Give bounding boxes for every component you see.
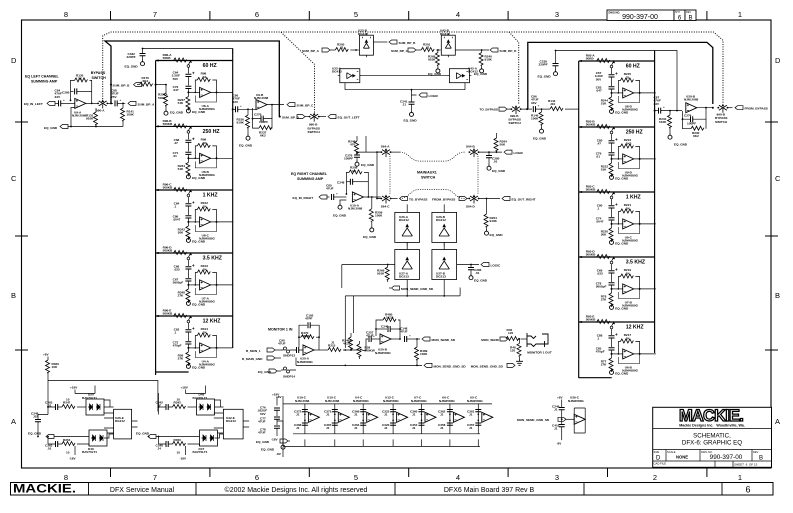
- svg-text:NJM 2068: NJM 2068: [325, 399, 340, 403]
- resistor R209: [371, 196, 373, 198]
- svg-text:3.5 KHZ: 3.5 KHZ: [203, 256, 223, 262]
- earth ground: [516, 358, 523, 365]
- svg-text:R354: R354: [63, 438, 71, 442]
- net SUM_BP_C: [287, 103, 295, 107]
- pot R96-D: [157, 251, 233, 306]
- op-amp U9-A: [75, 98, 86, 108]
- svg-text:J10: J10: [550, 102, 555, 106]
- lower wire: [345, 89, 465, 91]
- wire to S64-A: [357, 136, 381, 155]
- svg-text:J1: J1: [296, 426, 300, 430]
- svg-text:10: 10: [66, 397, 70, 401]
- svg-text:.1: .1: [597, 337, 600, 341]
- svg-text:EQ LEFT CHANNEL: EQ LEFT CHANNEL: [25, 75, 60, 79]
- svg-text:SHEET 6 OF 13: SHEET 6 OF 13: [734, 462, 758, 466]
- svg-text:.01: .01: [493, 160, 498, 164]
- svg-text:D: D: [775, 56, 781, 65]
- svg-text:SUM_BP_C: SUM_BP_C: [297, 104, 315, 108]
- svg-text:SCHEMATIC,: SCHEMATIC,: [693, 433, 731, 440]
- svg-text:J1: J1: [440, 413, 444, 417]
- pot R96-B: [157, 124, 233, 179]
- svg-text:EQ_GND: EQ_GND: [615, 111, 629, 115]
- svg-text:220PF: 220PF: [127, 55, 136, 59]
- resistor R363: [46, 360, 50, 373]
- wire: [55, 102, 58, 104]
- svg-text:4: 4: [456, 10, 460, 19]
- -18V: [74, 446, 76, 455]
- svg-text:EQ_GND: EQ_GND: [474, 279, 488, 283]
- svg-text:.47: .47: [597, 142, 602, 146]
- svg-text:910K: 910K: [237, 121, 245, 125]
- svg-text:J1: J1: [440, 426, 444, 430]
- svg-text:250 HZ: 250 HZ: [626, 130, 644, 136]
- svg-text:J1: J1: [384, 413, 388, 417]
- svg-text:A: A: [775, 417, 780, 426]
- svg-text:+: +: [63, 98, 65, 102]
- pot R93-A: [580, 59, 656, 114]
- svg-text:DFX-6: GRAPHIC EQ: DFX-6: GRAPHIC EQ: [682, 440, 742, 447]
- ground bus wire: [296, 364, 422, 366]
- svg-text:EQ_GND: EQ_GND: [192, 176, 206, 180]
- resistor R141: [122, 103, 124, 108]
- svg-text:1: 1: [738, 473, 742, 482]
- svg-text:5: 5: [354, 10, 358, 19]
- wire top rail to column: [143, 49, 233, 55]
- switch S64-B: [469, 148, 480, 157]
- pot R93-E: [580, 320, 656, 375]
- svg-text:1 KHZ: 1 KHZ: [626, 195, 642, 201]
- svg-text:910K: 910K: [428, 58, 436, 62]
- svg-text:NJM 2068: NJM 2068: [295, 399, 310, 403]
- svg-text:DG412: DG412: [468, 70, 478, 74]
- jack MONITOR 1 OUT: [527, 333, 548, 347]
- svg-text:33V: 33V: [55, 95, 61, 99]
- resistor R246A: [349, 337, 353, 350]
- svg-text:MONITOR 1 IN: MONITOR 1 IN: [268, 328, 293, 332]
- svg-text:100PF: 100PF: [344, 157, 353, 161]
- svg-text:.033: .033: [597, 272, 603, 276]
- svg-text:MONITOR 1 OUT: MONITOR 1 OUT: [527, 351, 552, 355]
- svg-text:SHT: SHT: [675, 11, 680, 14]
- net EQ_OUT_RIGHT: [502, 197, 510, 201]
- svg-text:C274: C274: [684, 114, 692, 118]
- svg-text:S64-A: S64-A: [381, 145, 391, 149]
- op-amp U9-B: [256, 100, 267, 110]
- op-amp U10-A: [352, 192, 363, 202]
- net LOGIC: [412, 90, 417, 95]
- svg-text:EQ_GND: EQ_GND: [125, 64, 139, 68]
- svg-text:4K23: 4K23: [343, 342, 351, 346]
- svg-text:60 HZ: 60 HZ: [626, 64, 641, 70]
- lower mid wire: [293, 433, 480, 435]
- svg-text:3: 3: [555, 473, 559, 482]
- svg-text:B_MAIN_GND: B_MAIN_GND: [242, 357, 263, 361]
- svg-text:NJM4580G: NJM4580G: [375, 351, 391, 355]
- analog switch U22-A left-facing: [338, 69, 362, 83]
- ground: [436, 67, 440, 73]
- svg-text:EQ_GND: EQ_GND: [192, 240, 206, 244]
- svg-text:EQ_IN_LEFT: EQ_IN_LEFT: [24, 102, 43, 106]
- svg-text:7: 7: [153, 473, 157, 482]
- capacitor C274 feedback: [683, 108, 707, 120]
- svg-text:SWITCH: SWITCH: [715, 120, 728, 124]
- svg-text:SWITCH: SWITCH: [308, 130, 321, 134]
- svg-text:EQ_GND: EQ_GND: [404, 119, 418, 123]
- svg-text:DG212: DG212: [399, 218, 409, 222]
- svg-text:7: 7: [153, 10, 157, 19]
- svg-text:BAV70LT1: BAV70LT1: [82, 450, 97, 454]
- buffer U6-C: [438, 396, 464, 447]
- column numbers bottom: [64, 473, 742, 482]
- svg-text:3: 3: [555, 10, 559, 19]
- svg-text:+18V: +18V: [70, 386, 78, 390]
- svg-text:TO_BYPASS: TO_BYPASS: [409, 197, 427, 201]
- net FROM_BYPASS: [735, 106, 743, 110]
- svg-text:SUMMING AMP: SUMMING AMP: [31, 80, 58, 84]
- svg-text:MON_SEND_GND_SD: MON_SEND_GND_SD: [401, 287, 434, 291]
- net LOGIC: [504, 150, 512, 154]
- svg-text:500KB: 500KB: [586, 188, 596, 192]
- svg-text:DG212: DG212: [436, 218, 446, 222]
- op-amp U36-C: [574, 414, 585, 424]
- buffer U10-C: [324, 396, 349, 447]
- svg-text:C248: C248: [337, 181, 345, 185]
- svg-text:1K3: 1K3: [626, 141, 632, 145]
- svg-text:DG213: DG213: [399, 275, 409, 279]
- svg-text:SIZE: SIZE: [654, 450, 660, 454]
- analog switch U26-B: [432, 204, 457, 246]
- svg-text:EQ_GND: EQ_GND: [492, 169, 506, 173]
- svg-text:12 KHZ: 12 KHZ: [626, 325, 645, 331]
- svg-text:B: B: [11, 291, 16, 300]
- svg-text:BAV70LT1: BAV70LT1: [193, 450, 208, 454]
- resistor R236: [246, 115, 250, 128]
- resistor R48: [519, 339, 521, 343]
- svg-text:S64-B: S64-B: [466, 145, 476, 149]
- svg-text:.01: .01: [475, 271, 480, 275]
- svg-text:1 KHZ: 1 KHZ: [203, 193, 219, 199]
- svg-text:5: 5: [354, 473, 358, 482]
- svg-text:NJM 2068: NJM 2068: [72, 114, 87, 118]
- svg-text:+18V: +18V: [181, 386, 189, 390]
- svg-text:500KB: 500KB: [586, 123, 596, 127]
- wire from column: [655, 110, 659, 112]
- svg-text:10: 10: [177, 397, 181, 401]
- svg-text:4: 4: [456, 473, 460, 482]
- svg-text:FROM_BYPASS: FROM_BYPASS: [432, 197, 455, 201]
- svg-text:C: C: [11, 174, 17, 183]
- buffer U5-C: [467, 396, 493, 447]
- svg-text:+: +: [336, 192, 338, 196]
- svg-text:NJM4580G: NJM4580G: [439, 399, 455, 403]
- svg-text:Mackie Designs Inc. Woodinvi: Mackie Designs Inc. Woodinville, Wa.: [679, 423, 745, 427]
- svg-text:MON_SEND_GND_SD: MON_SEND_GND_SD: [517, 418, 550, 422]
- ground: [410, 110, 414, 116]
- switch S64-A: [381, 148, 392, 157]
- svg-text:25V: 25V: [111, 95, 117, 99]
- svg-text:.1: .1: [174, 205, 177, 209]
- svg-text:27K: 27K: [178, 294, 184, 298]
- svg-text:DG412: DG412: [332, 70, 342, 74]
- pot R93-D: [580, 255, 656, 310]
- net SUM_BP_D: [455, 49, 489, 51]
- svg-text:LOGIC: LOGIC: [491, 263, 502, 267]
- svg-text:.01: .01: [47, 447, 52, 451]
- svg-text:10: 10: [177, 451, 181, 455]
- svg-text:EQ_GND: EQ_GND: [261, 448, 275, 452]
- svg-text:NJM4580G: NJM4580G: [467, 399, 483, 403]
- svg-text:47UF: 47UF: [258, 420, 266, 424]
- ferrite SHDP13: [281, 347, 296, 353]
- svg-text:.0047: .0047: [173, 218, 181, 222]
- svg-text:1: 1: [738, 10, 742, 19]
- svg-text:120: 120: [510, 349, 515, 353]
- svg-text:J1: J1: [469, 413, 473, 417]
- pot R96-E: [157, 314, 233, 369]
- resistor R268: [435, 53, 439, 66]
- svg-text:500KB: 500KB: [586, 253, 596, 257]
- svg-text:REV: REV: [686, 11, 691, 14]
- svg-text:SWITCH: SWITCH: [421, 176, 436, 180]
- left column bus wires: [156, 49, 233, 376]
- capacitor C279 feedback: [253, 105, 273, 119]
- top wire: [48, 381, 158, 412]
- svg-text:©2002 Mackie Designs Inc. All: ©2002 Mackie Designs Inc. All rights res…: [225, 486, 368, 494]
- svg-text:C: C: [775, 174, 781, 183]
- svg-text:990-397-00: 990-397-00: [710, 454, 743, 461]
- svg-text:EQ_GND: EQ_GND: [361, 163, 375, 167]
- ground: [469, 274, 473, 280]
- svg-text:51K: 51K: [601, 102, 607, 106]
- diode pair D47: [200, 430, 218, 446]
- resistor R269: [385, 267, 389, 280]
- svg-text:LOGIC: LOGIC: [514, 151, 525, 155]
- svg-text:-18V: -18V: [180, 457, 187, 461]
- resistor R230 feedback: [683, 119, 707, 129]
- svg-text:EQ_GND: EQ_GND: [28, 432, 42, 436]
- svg-text:R350: R350: [174, 438, 182, 442]
- svg-text:FROM_BYPASS: FROM_BYPASS: [745, 107, 768, 111]
- svg-text:6K2: 6K2: [693, 134, 699, 138]
- svg-text:TO_BYPASS: TO_BYPASS: [480, 108, 498, 112]
- net MON_SEND_SD: [422, 337, 430, 341]
- svg-text:8: 8: [64, 10, 68, 19]
- svg-text:MON_SEND_GND_SD: MON_SEND_GND_SD: [434, 364, 467, 368]
- svg-text:EQ_GND: EQ_GND: [615, 242, 629, 246]
- svg-text:.01: .01: [596, 155, 601, 159]
- svg-text:J1: J1: [354, 413, 358, 417]
- wire opamp out to switches: [377, 152, 381, 198]
- MAIN/AUX1 switch dotted box: [400, 152, 465, 198]
- svg-text:SUM_BP_C: SUM_BP_C: [391, 49, 409, 53]
- svg-text:EQ_GND: EQ_GND: [674, 143, 688, 147]
- ground: [487, 164, 491, 170]
- svg-text:EQ_GND: EQ_GND: [615, 307, 629, 311]
- svg-text:J1: J1: [326, 426, 330, 430]
- ground: [141, 60, 145, 66]
- buffer U7-C: [410, 396, 436, 447]
- ground: [480, 67, 484, 73]
- svg-text:27K: 27K: [601, 363, 607, 367]
- resistor R204: [486, 199, 488, 215]
- svg-text:DWG NO.: DWG NO.: [609, 10, 621, 14]
- svg-text:50KB: 50KB: [163, 56, 172, 60]
- svg-text:3.5 KHZ: 3.5 KHZ: [626, 260, 646, 266]
- switch S64-D: [469, 195, 480, 204]
- svg-text:33: 33: [203, 75, 207, 79]
- svg-text:6: 6: [255, 10, 259, 19]
- wires to U26-E: [104, 400, 114, 407]
- svg-text:J4: J4: [158, 447, 162, 451]
- svg-text:100K: 100K: [420, 352, 428, 356]
- svg-text:470pF: 470pF: [173, 344, 182, 348]
- svg-text:33V: 33V: [654, 102, 660, 106]
- svg-text:J1: J1: [554, 427, 558, 431]
- analog switch U22-B: [359, 33, 373, 57]
- svg-text:47UF: 47UF: [258, 431, 266, 435]
- resistor R489: [416, 339, 418, 347]
- svg-text:J1: J1: [469, 426, 473, 430]
- op-amp U30-B: [686, 103, 697, 113]
- svg-text:NJM4580G: NJM4580G: [297, 360, 313, 364]
- svg-text:SUM_BP_B: SUM_BP_B: [399, 41, 417, 45]
- pot R96-C: [157, 188, 233, 243]
- resistor R131: [94, 112, 98, 125]
- svg-text:DFX6 Main Board 397 Rev B: DFX6 Main Board 397 Rev B: [444, 487, 535, 494]
- svg-text:C280: C280: [62, 91, 70, 95]
- svg-text:SCALE: SCALE: [667, 450, 676, 454]
- ground: [355, 160, 359, 166]
- svg-text:51K: 51K: [601, 168, 607, 172]
- svg-text:SWITCH: SWITCH: [92, 76, 107, 80]
- -18V: [185, 446, 187, 455]
- svg-text:+: +: [663, 105, 665, 109]
- svg-text:MON_SEND_SD: MON_SEND_SD: [432, 338, 456, 342]
- svg-text:SWITCH: SWITCH: [509, 121, 522, 125]
- svg-text:5600pF: 5600pF: [173, 281, 184, 285]
- bypass switch 990-B left: [309, 113, 320, 122]
- svg-text:J1: J1: [412, 413, 416, 417]
- ground: [246, 134, 250, 140]
- svg-text:D: D: [11, 56, 17, 65]
- analog switch U27-A: [395, 242, 420, 287]
- net LOGIC lower: [457, 264, 479, 266]
- svg-text:990-397-00: 990-397-00: [622, 14, 658, 21]
- bypass switch 990-B: [511, 105, 522, 114]
- svg-text:NJM 2068: NJM 2068: [254, 96, 269, 100]
- svg-text:500KB: 500KB: [586, 318, 596, 322]
- svg-text:BYPASS: BYPASS: [91, 71, 106, 75]
- svg-text:8: 8: [64, 473, 68, 482]
- svg-text:50V: 50V: [596, 77, 602, 81]
- capacitor C280b: [486, 156, 492, 158]
- resistor R264: [494, 138, 498, 151]
- ground: [668, 133, 672, 139]
- svg-text:EQ_GND: EQ_GND: [533, 137, 547, 141]
- svg-text:NJM 2068: NJM 2068: [684, 98, 699, 102]
- column numbers top: [64, 10, 742, 19]
- svg-text:S64-C: S64-C: [381, 205, 391, 209]
- svg-text:+8V: +8V: [43, 353, 50, 357]
- net SUM_BP_A: [128, 101, 136, 105]
- svg-text:J1: J1: [412, 426, 416, 430]
- diode pair D49: [89, 430, 107, 446]
- svg-text:500KB: 500KB: [163, 312, 173, 316]
- svg-text:50KB: 50KB: [586, 57, 595, 61]
- ground: [485, 229, 489, 235]
- svg-text:EQ_GND: EQ_GND: [170, 111, 184, 115]
- svg-text:500KB: 500KB: [163, 122, 173, 126]
- svg-text:.47: .47: [174, 141, 179, 145]
- svg-text:J1: J1: [326, 413, 330, 417]
- svg-text:47PF: 47PF: [305, 317, 313, 321]
- svg-text:SHDP14: SHDP14: [283, 374, 295, 378]
- svg-text:EQ_GND: EQ_GND: [192, 303, 206, 307]
- analog switch U42-B: [441, 33, 455, 57]
- analog switch U26-A: [395, 204, 420, 246]
- pot R96-A: [157, 58, 233, 113]
- svg-text:MON_SEND: MON_SEND: [481, 338, 499, 342]
- svg-text:MACKIE.: MACKIE.: [679, 407, 743, 425]
- svg-text:MACKIE.: MACKIE.: [13, 484, 76, 496]
- svg-text:EQ_GND: EQ_GND: [333, 214, 347, 218]
- svg-text:NONE: NONE: [676, 455, 688, 460]
- switch block U32-E: [214, 409, 249, 439]
- svg-text:250 HZ: 250 HZ: [203, 129, 221, 135]
- svg-text:EQ_GND: EQ_GND: [490, 233, 504, 237]
- svg-text:EQ_GND: EQ_GND: [44, 126, 58, 130]
- svg-text:MAIN/AUX1: MAIN/AUX1: [417, 171, 437, 175]
- svg-text:SHDP13: SHDP13: [283, 353, 295, 357]
- svg-text:EQ_GND: EQ_GND: [256, 440, 270, 444]
- svg-text:10: 10: [66, 451, 70, 455]
- svg-text:220PF: 220PF: [539, 63, 548, 67]
- svg-text:NJM4580G: NJM4580G: [568, 399, 584, 403]
- svg-text:.1: .1: [174, 331, 177, 335]
- svg-text:33V: 33V: [531, 101, 537, 105]
- ground: [540, 127, 544, 133]
- pot R93-B: [580, 125, 656, 180]
- svg-text:J1: J1: [354, 426, 358, 430]
- wire between switches: [360, 75, 450, 77]
- svg-text:30K: 30K: [178, 231, 184, 235]
- svg-text:.033: .033: [174, 268, 180, 272]
- svg-text:33: 33: [626, 75, 630, 79]
- svg-text:50K: 50K: [500, 143, 506, 147]
- wires to U32-E: [215, 400, 224, 407]
- svg-text:DG412: DG412: [358, 32, 368, 36]
- resistor R234: [668, 115, 672, 128]
- svg-text:.047: .047: [173, 88, 179, 92]
- svg-text:6: 6: [255, 473, 259, 482]
- svg-text:.1: .1: [597, 207, 600, 211]
- svg-text:.01: .01: [173, 154, 178, 158]
- svg-text:CAD FILE: CAD FILE: [654, 462, 667, 466]
- svg-text:SUM_BP_A: SUM_BP_A: [302, 49, 320, 53]
- svg-text:100K: 100K: [127, 113, 135, 117]
- resistor R146: [539, 112, 543, 125]
- svg-text:910K: 910K: [86, 117, 94, 121]
- wire lower bus: [342, 264, 395, 266]
- svg-text:.0047: .0047: [596, 220, 604, 224]
- svg-text:EQ_GND: EQ_GND: [538, 74, 552, 78]
- analog switch U42-A: [447, 69, 471, 83]
- svg-text:DG412: DG412: [440, 32, 450, 36]
- svg-text:+: +: [409, 334, 411, 338]
- switch S64-C: [381, 195, 392, 204]
- ground: [370, 226, 374, 232]
- svg-text:J1: J1: [554, 408, 558, 412]
